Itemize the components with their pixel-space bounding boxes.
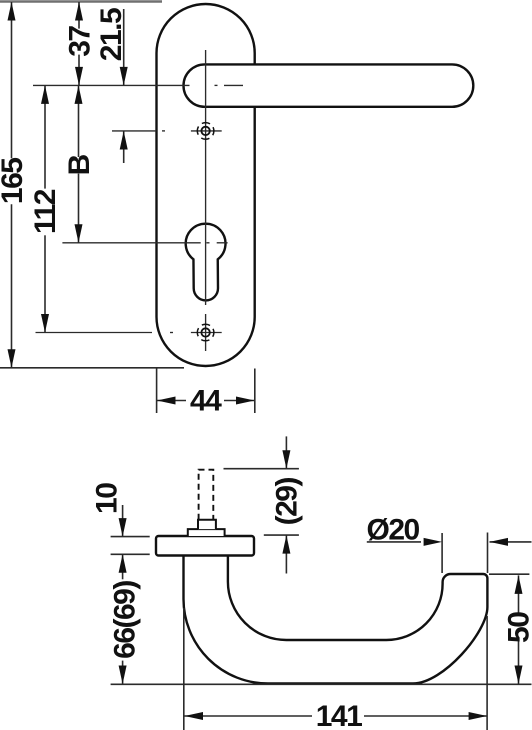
svg-text:Ø20: Ø20	[366, 514, 419, 547]
svg-text:21.5: 21.5	[95, 8, 128, 61]
dimension Ø20	[366, 514, 531, 574]
top screw hole	[197, 123, 214, 140]
spindle top extension line	[224, 468, 299, 470]
dimension 141	[185, 700, 488, 730]
handle side view outline	[184, 555, 488, 684]
rose (escutcheon side view)	[156, 536, 254, 556]
spindle step (wide)	[188, 529, 225, 536]
svg-text:66(69): 66(69)	[109, 581, 142, 659]
dimension 10	[91, 483, 127, 537]
dimension 21.5	[95, 8, 128, 163]
dimension B	[63, 85, 96, 242]
dimension 66(69)	[109, 554, 142, 684]
lever handle outline	[184, 64, 474, 106]
cylinder hole (euro profile)	[186, 224, 226, 301]
svg-text:(29): (29)	[270, 478, 303, 526]
handle bottom extension line	[111, 683, 532, 685]
141 extension line right	[486, 616, 488, 730]
dimension 165	[0, 2, 29, 368]
bottom screw hole centerline	[36, 332, 153, 334]
svg-text:50: 50	[503, 612, 532, 643]
lever axis centerline	[33, 84, 190, 86]
svg-text:44: 44	[190, 385, 222, 418]
dimension 50	[503, 575, 532, 684]
spindle (hidden, dashed)	[199, 470, 214, 520]
backplate outline	[157, 4, 255, 366]
dimension 37	[64, 2, 97, 85]
plate vertical centerline	[205, 50, 207, 305]
cylinder hole centerline	[62, 242, 200, 244]
svg-text:B: B	[63, 154, 96, 175]
svg-text:141: 141	[316, 700, 362, 730]
svg-text:37: 37	[64, 26, 97, 57]
svg-text:165: 165	[0, 158, 29, 204]
grip top extension line	[489, 573, 529, 575]
top screw hole centerline	[112, 130, 156, 132]
dimension 112	[29, 85, 62, 332]
bottom screw hole	[197, 324, 214, 341]
rose top extension line (right)	[264, 534, 299, 536]
plate bottom extension line	[0, 367, 184, 369]
dimension 44	[157, 369, 255, 418]
dimension (29)	[270, 436, 303, 573]
spindle step (narrow)	[198, 520, 216, 529]
svg-text:10: 10	[91, 483, 124, 514]
rose extension lines (left)	[111, 536, 150, 538]
plate top extension line	[0, 0, 162, 2]
141 extension line left	[183, 608, 185, 730]
svg-text:112: 112	[29, 189, 62, 234]
